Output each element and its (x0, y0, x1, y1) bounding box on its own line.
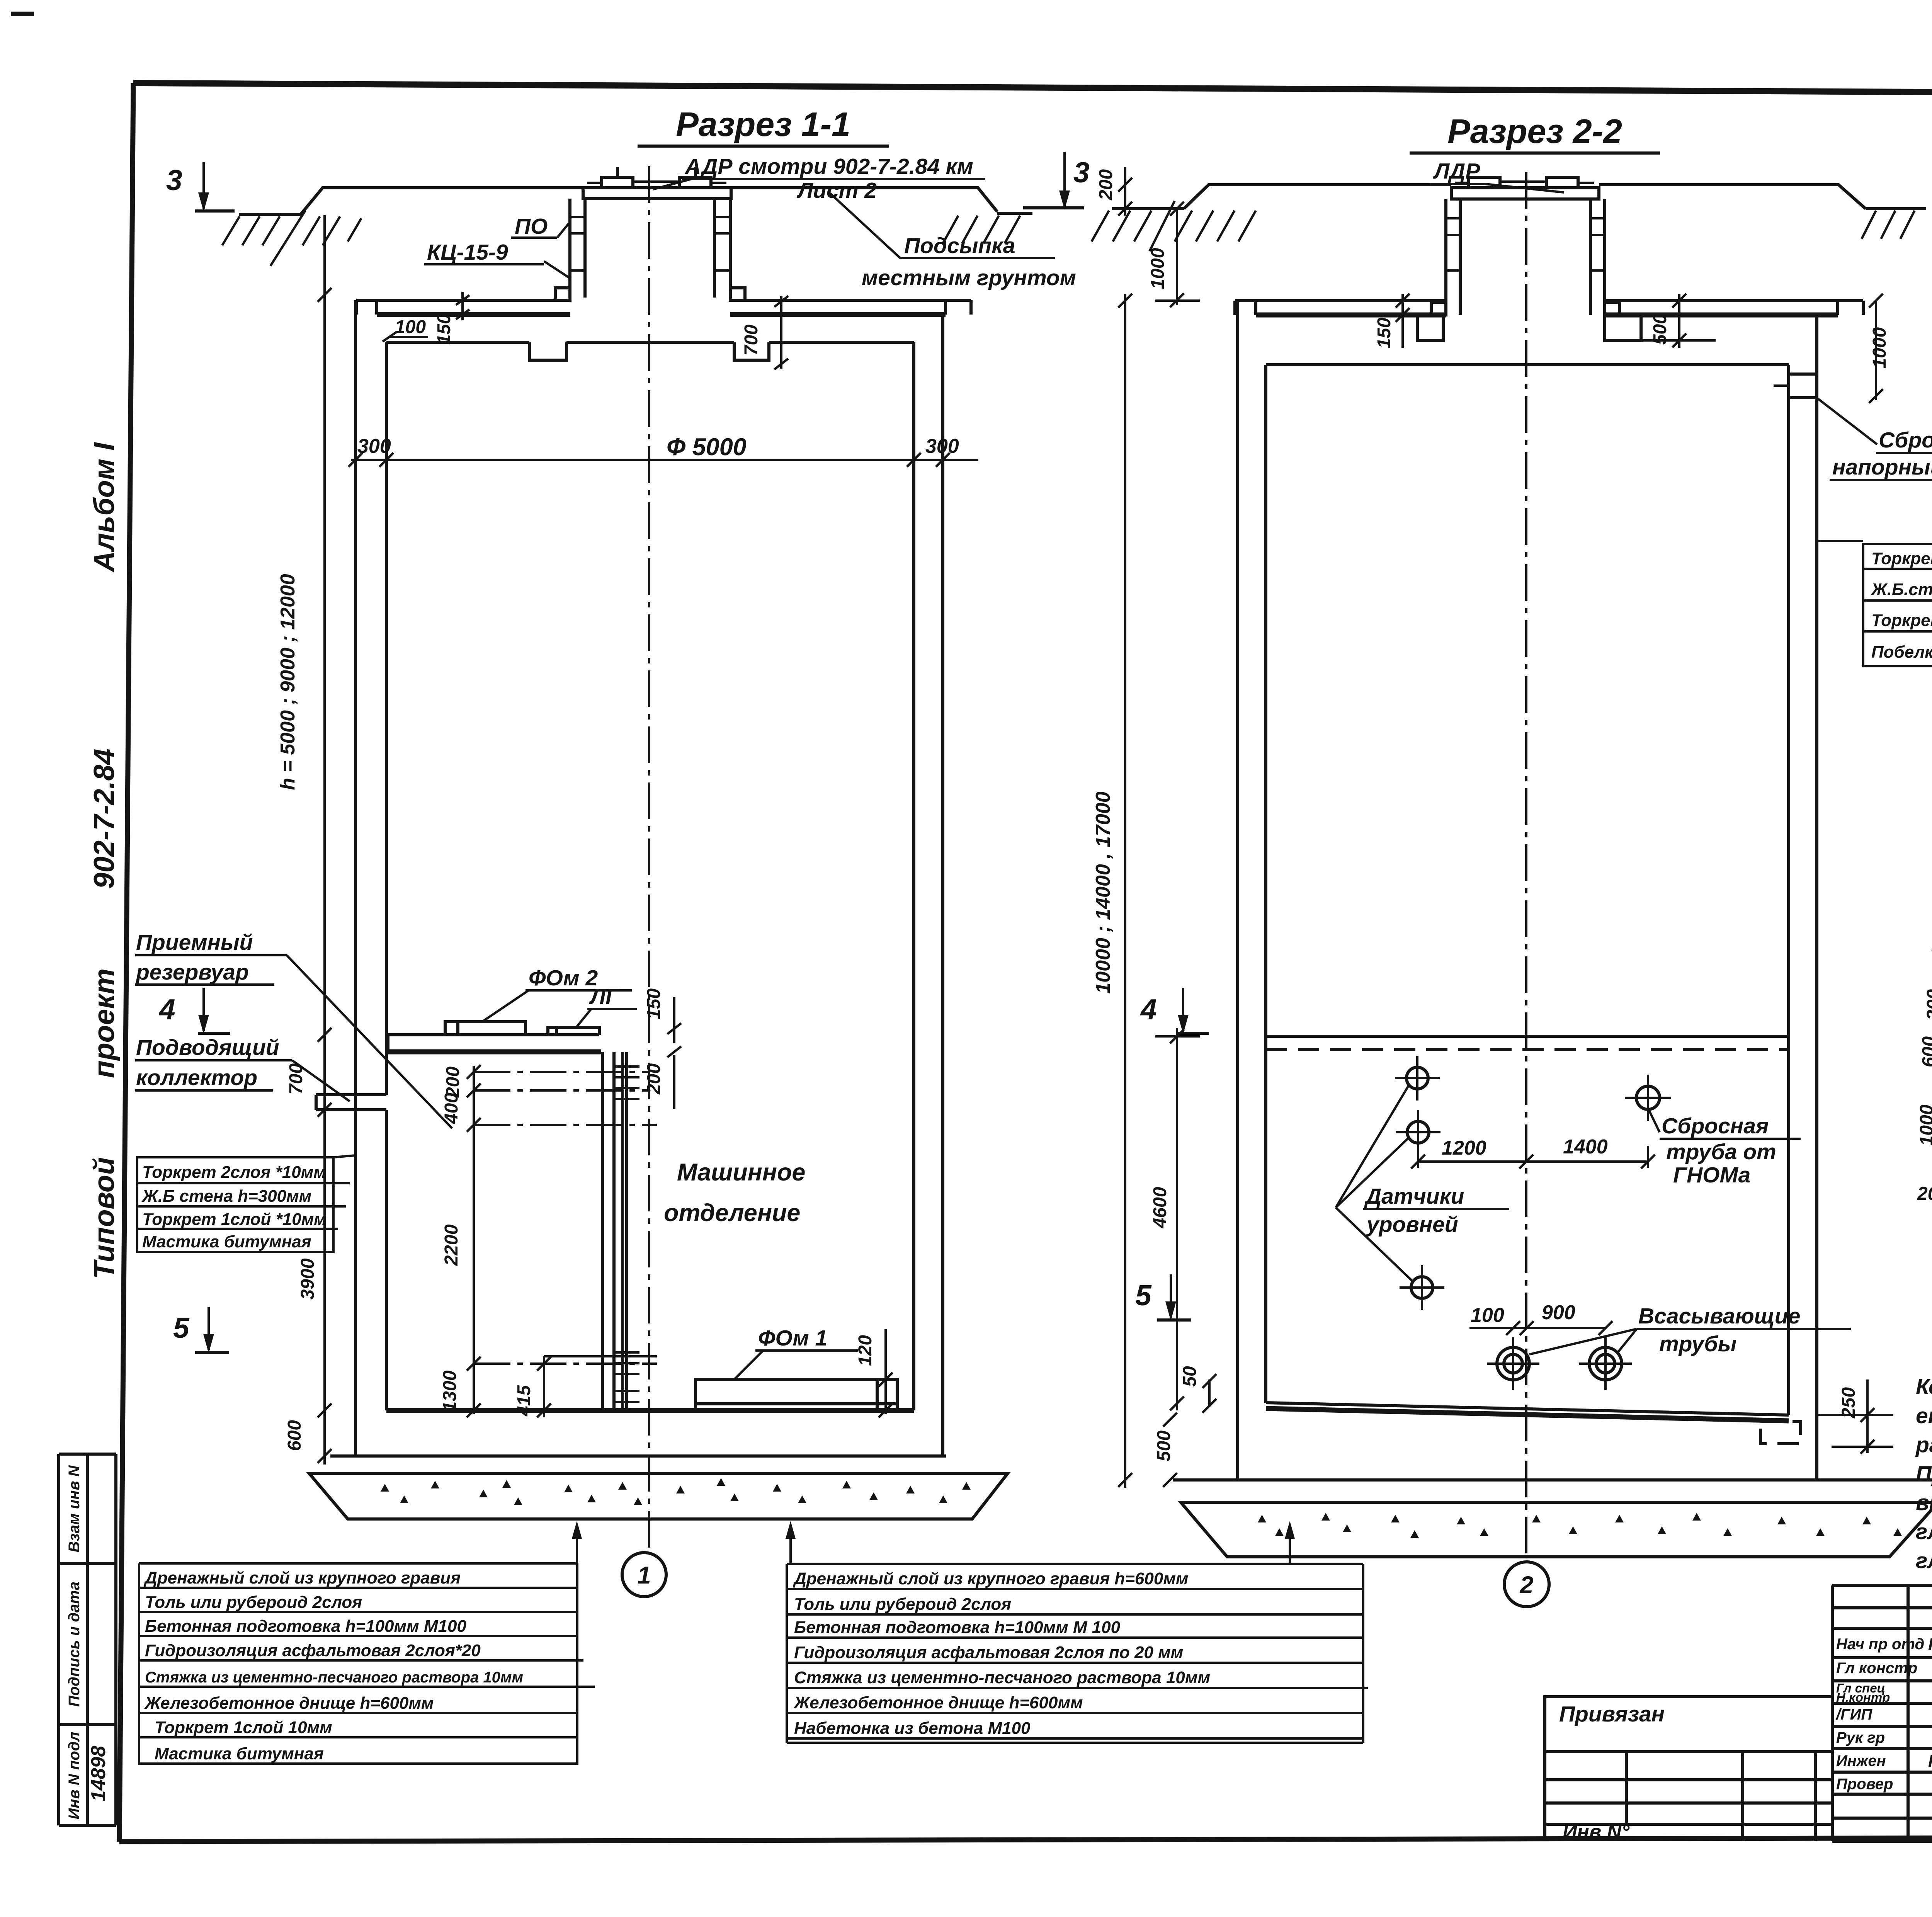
section 2-2 ground line left (1112, 207, 1184, 210)
dim 1000 cover depth (1148, 202, 1200, 307)
dim 700 slab notch (741, 296, 788, 369)
svg-text:4: 4 (1140, 993, 1157, 1026)
svg-text:14898: 14898 (87, 1746, 110, 1802)
torkret wall list left (137, 1155, 355, 1252)
svg-text:200: 200 (1096, 169, 1116, 201)
title block extension box privyazan (1545, 1697, 1832, 1843)
svg-text:Всасывающие: Всасывающие (1638, 1304, 1800, 1328)
svg-text:700: 700 (286, 1063, 306, 1094)
svg-text:2200: 2200 (441, 1224, 462, 1266)
svg-text:200: 200 (1923, 989, 1932, 1021)
gravel triangles 2-2 (1258, 1513, 1902, 1538)
suction pipe right (1579, 1337, 1632, 1390)
label ADR note (653, 154, 985, 203)
section marker 4 middle (1140, 988, 1209, 1034)
label podvodyashchy kollektor (135, 1035, 350, 1101)
svg-text:труба от: труба от (1666, 1140, 1776, 1164)
svg-text:1000: 1000 (1917, 1104, 1932, 1146)
svg-text:КЦ-15-9: КЦ-15-9 (427, 240, 508, 265)
svg-text:Провер: Провер (1836, 1776, 1893, 1793)
slab notch left (529, 342, 566, 360)
water level lines reservoir (474, 1072, 657, 1364)
svg-text:Конструкция нижней части ко: Конструкция нижней части колодца принима… (1916, 1374, 1932, 1399)
section 1-1 ground line left (239, 213, 301, 216)
svg-text:При привязке данного листа: При привязке данного листа в соответстви… (1916, 1461, 1932, 1486)
section 2-2 soil mound (1184, 185, 1926, 209)
svg-text:Нач пр отд: Нач пр отд (1836, 1636, 1924, 1653)
svg-text:Подводящий: Подводящий (136, 1035, 279, 1060)
svg-text:работ по насосной станции.: работ по насосной станции. (1915, 1432, 1932, 1457)
svg-text:Дренажный слой из крупного гра: Дренажный слой из крупного гравия (143, 1568, 461, 1587)
inlet collector pipe (316, 1095, 386, 1110)
svg-text:резервуар: резервуар (135, 960, 249, 985)
svg-text:Побелка известковая: Побелка известковая (1871, 643, 1932, 662)
dim 200 partition (644, 1055, 674, 1109)
tank floor 1-1 (330, 1410, 946, 1456)
svg-text:трубы: трубы (1659, 1332, 1736, 1356)
svg-text:Набетонка из бетона М100: Набетонка из бетона М100 (794, 1719, 1031, 1738)
section 1-1 ground hatching left (222, 211, 361, 266)
svg-text:150: 150 (1374, 318, 1395, 349)
foundation block FOm2 (445, 1022, 526, 1035)
svg-text:5: 5 (173, 1311, 190, 1344)
section 2-2 ground hatching right (1862, 211, 1915, 239)
svg-text:ЛДР: ЛДР (1433, 159, 1480, 184)
gravel bed 1-1 (309, 1473, 1008, 1519)
scan artifact top-left (11, 12, 34, 16)
section 2-2 title (1410, 112, 1660, 153)
dim 1000 right wall pipe (1869, 294, 1890, 403)
dim 415 (514, 1356, 657, 1417)
dim 100 slab (383, 317, 428, 342)
svg-text:900: 900 (1542, 1301, 1575, 1324)
section 1-1 ground hatching right (943, 216, 1020, 243)
label sbrosnaya truba ot gnoma (1649, 1110, 1801, 1187)
svg-text:1000: 1000 (1148, 248, 1168, 289)
svg-text:Типовой: Типовой (88, 1157, 120, 1279)
svg-text:1200: 1200 (1442, 1137, 1486, 1159)
svg-text:700: 700 (741, 325, 762, 356)
svg-text:Подпись и дата: Подпись и дата (66, 1582, 83, 1707)
svg-text:/ГИП: /ГИП (1835, 1706, 1872, 1723)
bottom construction dims (1917, 934, 1932, 1208)
dimension chain reservoir (440, 1065, 481, 1417)
svg-text:600: 600 (1919, 1036, 1932, 1067)
svg-text:902-7-2.84: 902-7-2.84 (88, 748, 120, 889)
dim 200 mound height (1096, 167, 1132, 216)
svg-text:ФОм 1: ФОм 1 (758, 1326, 827, 1351)
manhole cover assembly 2-2 (1451, 177, 1599, 199)
svg-text:h = 5000 ; 9000 ; 12000: h = 5000 ; 9000 ; 12000 (277, 574, 299, 790)
svg-text:1400: 1400 (1563, 1136, 1608, 1158)
svg-text:400: 400 (441, 1093, 462, 1124)
label datchiki urovney (1336, 1084, 1509, 1281)
svg-text:глубина насосной станции: глубина насосной станции (1916, 1548, 1932, 1573)
svg-text:Альбом I: Альбом I (88, 442, 120, 573)
label podsypka (830, 193, 1076, 290)
svg-text:Н.контр: Н.контр (1836, 1690, 1890, 1704)
height dimension line 2-2 (1092, 294, 1132, 1488)
partition wall (602, 1052, 627, 1410)
detail circle 1 (622, 1553, 666, 1597)
svg-text:Сбросная: Сбросная (1662, 1114, 1769, 1138)
svg-text:4: 4 (158, 993, 175, 1026)
svg-text:10000 ; 14000 , 17000: 10000 ; 14000 , 17000 (1092, 791, 1114, 993)
bottom-left stamp column table (59, 1454, 116, 1825)
svg-text:Приемный: Приемный (136, 930, 253, 955)
manhole cover assembly 1-1 (583, 167, 731, 199)
svg-text:3: 3 (1073, 156, 1090, 189)
diameter dimension line (349, 434, 978, 467)
svg-text:Торкрет 1слой 10мм: Торкрет 1слой 10мм (1871, 611, 1932, 630)
label KC-15-9 (424, 240, 571, 279)
dims 1200 1400 (1411, 1136, 1655, 1169)
svg-text:Ф 5000: Ф 5000 (667, 434, 747, 461)
dim 150 slab 2-2 (1374, 294, 1410, 349)
svg-text:выбранной маркой НС оставля: выбранной маркой НС оставляется требуема… (1916, 1490, 1932, 1515)
slab notch left 2-2 (1417, 315, 1443, 340)
svg-text:коллектор: коллектор (136, 1065, 257, 1090)
svg-text:100: 100 (1471, 1304, 1504, 1327)
materials list left (139, 1563, 595, 1765)
label LDR (1430, 159, 1564, 192)
svg-text:Гидроизоляция асфальтовая 2с: Гидроизоляция асфальтовая 2слоя по 20 мм (794, 1643, 1183, 1662)
leader arrows to lists 1-1 (572, 1521, 796, 1564)
svg-text:Мастика битумная: Мастика битумная (155, 1744, 324, 1763)
svg-text:200: 200 (1917, 1184, 1932, 1204)
dim 500 slab 2-2 (1642, 294, 1716, 348)
svg-text:Бетонная подготовка h=100мм: Бетонная подготовка h=100мм М 100 (794, 1618, 1121, 1637)
note paragraph (1915, 1374, 1932, 1573)
svg-text:Взам инв N: Взам инв N (66, 1465, 83, 1552)
svg-text:Мастика битумная: Мастика битумная (142, 1232, 311, 1251)
manhole shaft 2-2 (1431, 199, 1619, 315)
dim 3900 (298, 1258, 318, 1300)
label sbrosnoy naporny truboprovod (1818, 399, 1932, 480)
hatch rail LG (548, 1027, 599, 1035)
svg-text:глубина заложения подводящег: глубина заложения подводящего коллектора… (1916, 1519, 1932, 1544)
svg-text:местным грунтом: местным грунтом (862, 265, 1076, 290)
svg-text:150: 150 (434, 314, 454, 345)
machine room label (664, 1159, 805, 1226)
svg-text:500: 500 (1154, 1431, 1174, 1461)
svg-text:уровней: уровней (1366, 1212, 1458, 1237)
svg-text:ется в зависимости от спосо: ется в зависимости от способа производст… (1916, 1403, 1932, 1428)
reservoir platform slab (388, 1035, 601, 1052)
svg-text:300: 300 (357, 435, 391, 458)
svg-text:Колесов: Колесов (1928, 1635, 1932, 1654)
foundation block FOm1 (696, 1379, 897, 1410)
section marker 4 left (158, 988, 230, 1034)
section 2-2 top slab (1235, 301, 1863, 365)
svg-text:Подсыпка: Подсыпка (904, 233, 1015, 258)
gravel bed 2-2 (1181, 1502, 1932, 1557)
svg-text:Ж.Б стена h=300мм: Ж.Б стена h=300мм (141, 1187, 311, 1206)
svg-text:Машинное: Машинное (677, 1159, 805, 1186)
dim 4600 (1150, 1028, 1200, 1410)
svg-text:Ж.Б.стена h=300мм: Ж.Б.стена h=300мм (1871, 580, 1932, 599)
svg-text:Инв N°: Инв N° (1563, 1821, 1630, 1843)
svg-text:ГНОМа: ГНОМа (1673, 1163, 1750, 1187)
section 2-2 center axis line (1525, 172, 1527, 1560)
signature table (1832, 1585, 1932, 1841)
svg-text:600: 600 (284, 1420, 305, 1451)
svg-text:5: 5 (1135, 1279, 1152, 1311)
discharge pipe penetration box (1774, 374, 1817, 398)
dim 50 (1180, 1366, 1216, 1413)
dim 500 bottom 2-2 (1154, 1413, 1177, 1487)
sump dashed box (1760, 1422, 1801, 1444)
suction pipe left (1487, 1337, 1539, 1390)
section marker 5 middle (1135, 1274, 1191, 1321)
label PO (511, 214, 569, 239)
svg-text:Инв N подл: Инв N подл (66, 1732, 83, 1820)
svg-text:ПО: ПО (515, 214, 548, 239)
svg-text:300: 300 (925, 435, 959, 458)
svg-text:Торкрет 1слой *10мм: Торкрет 1слой *10мм (142, 1210, 327, 1229)
svg-text:Торкрет 1слой 10мм: Торкрет 1слой 10мм (155, 1718, 332, 1737)
svg-text:ЛГ: ЛГ (589, 984, 620, 1009)
svg-text:напорный трубопровод: напорный трубопровод (1832, 455, 1932, 480)
svg-text:Дренажный слой из крупного гра: Дренажный слой из крупного гравия h=600м… (793, 1569, 1188, 1588)
section 1-1 title (638, 105, 889, 146)
gravel triangles 1-1 (381, 1478, 971, 1505)
svg-text:Бетонная подготовка h=100мм: Бетонная подготовка h=100мм М100 (145, 1617, 466, 1636)
svg-text:2: 2 (1519, 1572, 1533, 1599)
partition layer ticks (614, 1067, 639, 1402)
svg-text:отделение: отделение (664, 1199, 800, 1226)
svg-text:250: 250 (1838, 1387, 1859, 1419)
section marker 3 left (166, 162, 235, 212)
svg-text:АДР смотри 902-7-2.84 км: АДР смотри 902-7-2.84 км (684, 154, 973, 179)
dim 120 FOm1 (855, 1329, 893, 1417)
materials list middle (787, 1564, 1368, 1743)
svg-text:Гл констр: Гл констр (1836, 1660, 1917, 1677)
svg-text:120: 120 (855, 1335, 876, 1366)
svg-text:Рук гр: Рук гр (1836, 1729, 1885, 1746)
rotated album text left margin (88, 442, 120, 1279)
level sensor S2 (1396, 1110, 1440, 1155)
svg-text:Железобетонное днище h=600м: Железобетонное днище h=600мм (793, 1693, 1083, 1712)
level sensor S3 (1400, 1265, 1444, 1310)
height dimension line h (277, 215, 332, 1465)
svg-text:Датчики: Датчики (1364, 1184, 1464, 1209)
discharge gnome pipe circle (1625, 1075, 1671, 1121)
section 1-1 soil mound (301, 188, 1032, 214)
dim 150 platform (644, 988, 681, 1057)
svg-text:1000: 1000 (1869, 327, 1890, 368)
svg-text:Торкрет 2слоя*10мм: Торкрет 2слоя*10мм (1871, 549, 1932, 568)
svg-text:ФОм 2: ФОм 2 (529, 966, 598, 990)
dim 150 slab lip (434, 292, 469, 345)
label FOm2 (481, 966, 632, 1022)
manhole shaft 1-1 (555, 199, 745, 300)
svg-text:Инжен: Инжен (1836, 1752, 1886, 1769)
svg-text:Железобетонное днище h=600мм: Железобетонное днище h=600мм (144, 1694, 434, 1713)
slab notch right (734, 342, 769, 360)
dim 250 right (1816, 1379, 1893, 1454)
svg-text:100: 100 (395, 317, 426, 337)
dim 600 bottom (284, 1403, 332, 1451)
label vsasyvayushchie truby (1529, 1304, 1851, 1356)
signature table names (1835, 1635, 1932, 1794)
leader arrow middle list right (1285, 1521, 1295, 1564)
svg-text:3: 3 (166, 164, 182, 196)
svg-text:Торкрет 2слоя *10мм: Торкрет 2слоя *10мм (142, 1163, 326, 1182)
svg-text:150: 150 (644, 988, 664, 1019)
svg-text:Толь или рубероид 2слоя: Толь или рубероид 2слоя (145, 1593, 362, 1612)
dim 700 collector (286, 1028, 332, 1117)
svg-text:1300: 1300 (440, 1370, 460, 1412)
svg-text:50: 50 (1180, 1366, 1200, 1387)
svg-text:4600: 4600 (1150, 1187, 1170, 1228)
label priemny rezervuar (135, 930, 452, 1128)
svg-text:Стяжка из цементно-песчаного р: Стяжка из цементно-песчаного раствора 10… (145, 1669, 523, 1686)
detail circle 2 (1504, 1562, 1549, 1607)
label FOm1 (735, 1326, 858, 1379)
dims 100 900 (1469, 1301, 1612, 1335)
level sensor S1 (1395, 1056, 1440, 1101)
tank floor 2-2 (1173, 1403, 1932, 1480)
svg-text:Привязан: Привязан (1559, 1702, 1665, 1726)
section 2-2 ground hatching left (1092, 201, 1256, 251)
svg-text:1: 1 (637, 1562, 651, 1589)
svg-text:Разрез 2-2: Разрез 2-2 (1447, 112, 1622, 150)
svg-text:Стяжка из цементно-песчаного: Стяжка из цементно-песчаного раствора 10… (794, 1668, 1210, 1687)
svg-text:3900: 3900 (298, 1258, 318, 1300)
slab notch right 2-2 (1605, 315, 1641, 340)
svg-text:Кондык: Кондык (1928, 1752, 1932, 1771)
svg-text:проект: проект (88, 968, 120, 1078)
svg-text:Толь или рубероид 2слоя: Толь или рубероид 2слоя (794, 1595, 1011, 1614)
section 1-1 top slab (356, 300, 971, 342)
torkret wall list right (1818, 541, 1932, 666)
section 2-2 walls (1238, 301, 1817, 1480)
section 1-1 center axis line (648, 166, 650, 1553)
section 1-1 walls (355, 300, 943, 1456)
section marker 3 right (1023, 152, 1090, 210)
svg-text:Разрез 1-1: Разрез 1-1 (676, 105, 850, 143)
svg-text:Сбросной: Сбросной (1879, 428, 1932, 452)
section marker 5 left (173, 1307, 229, 1353)
water level line 2-2 (1266, 1036, 1789, 1050)
svg-text:Гидроизоляция асфальтовая 2сло: Гидроизоляция асфальтовая 2слоя*20 (145, 1641, 481, 1660)
label LG (577, 984, 637, 1027)
